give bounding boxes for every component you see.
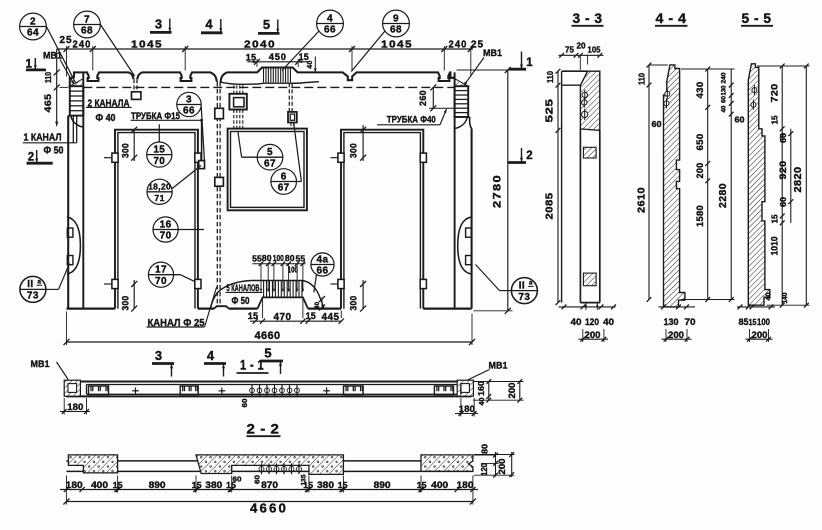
svg-text:465: 465 (43, 93, 54, 112)
svg-text:68: 68 (81, 26, 93, 37)
svg-text:4: 4 (207, 348, 215, 363)
svg-text:2: 2 (30, 16, 36, 27)
svg-text:135: 135 (300, 474, 307, 485)
svg-text:60: 60 (652, 119, 662, 129)
svg-text:2780: 2780 (491, 174, 503, 208)
svg-text:3 - 3: 3 - 3 (573, 11, 603, 26)
svg-text:1045: 1045 (131, 40, 163, 51)
svg-text:20: 20 (577, 41, 586, 51)
svg-text:МВ1: МВ1 (489, 360, 508, 371)
svg-text:68: 68 (390, 25, 402, 36)
svg-text:200: 200 (752, 330, 768, 341)
svg-text:1010: 1010 (769, 237, 779, 256)
svg-text:70: 70 (155, 276, 167, 287)
svg-text:85: 85 (739, 316, 749, 327)
svg-text:5: 5 (267, 147, 273, 158)
svg-text:60: 60 (240, 399, 249, 408)
svg-text:18,20: 18,20 (148, 182, 171, 192)
svg-text:70: 70 (160, 231, 172, 242)
svg-text:100: 100 (273, 253, 284, 263)
svg-text:200: 200 (694, 163, 705, 179)
svg-text:25: 25 (471, 40, 484, 51)
svg-text:15: 15 (153, 144, 165, 155)
svg-text:40: 40 (571, 317, 582, 328)
svg-text:180: 180 (67, 401, 83, 412)
svg-text:2280: 2280 (718, 183, 729, 208)
svg-text:40: 40 (766, 292, 773, 300)
svg-text:Ф 50: Ф 50 (44, 146, 64, 157)
svg-text:15: 15 (192, 480, 202, 490)
svg-text:2820: 2820 (793, 166, 804, 192)
svg-text:40: 40 (477, 398, 486, 406)
svg-text:200: 200 (497, 459, 507, 475)
svg-text:7: 7 (84, 14, 90, 25)
svg-text:100: 100 (757, 316, 770, 327)
svg-text:66: 66 (324, 25, 336, 36)
svg-text:180: 180 (66, 479, 83, 490)
svg-text:470: 470 (274, 312, 292, 323)
svg-text:71: 71 (154, 193, 164, 203)
svg-text:64: 64 (27, 28, 39, 39)
svg-text:II: II (27, 279, 33, 290)
svg-text:3: 3 (155, 17, 162, 32)
svg-text:300: 300 (349, 296, 359, 311)
svg-text:380: 380 (205, 479, 222, 490)
svg-text:40: 40 (314, 302, 321, 310)
svg-text:1580: 1580 (694, 205, 705, 227)
svg-text:80: 80 (262, 253, 272, 263)
svg-text:9: 9 (393, 13, 399, 24)
svg-text:15: 15 (417, 480, 427, 490)
svg-text:720: 720 (768, 84, 779, 103)
svg-text:70: 70 (685, 317, 696, 328)
svg-text:105: 105 (588, 45, 601, 55)
svg-text:400: 400 (431, 479, 448, 490)
svg-text:3: 3 (186, 94, 192, 105)
svg-text:130: 130 (721, 85, 728, 95)
svg-text:920: 920 (777, 161, 788, 180)
svg-text:15: 15 (248, 311, 258, 321)
svg-text:80: 80 (479, 444, 489, 454)
svg-text:2 - 2: 2 - 2 (247, 422, 280, 437)
svg-text:445: 445 (322, 312, 340, 323)
svg-text:1 КАНАЛ: 1 КАНАЛ (24, 132, 62, 143)
svg-text:400: 400 (91, 479, 108, 490)
svg-text:15: 15 (338, 480, 348, 490)
svg-text:300: 300 (121, 296, 131, 311)
svg-text:40: 40 (603, 317, 614, 328)
svg-text:5 КАНАЛОВ: 5 КАНАЛОВ (227, 282, 260, 293)
svg-text:1045: 1045 (381, 40, 413, 51)
svg-text:II: II (519, 280, 525, 291)
svg-text:60: 60 (779, 132, 788, 143)
svg-text:4660: 4660 (250, 502, 288, 516)
svg-text:4 - 4: 4 - 4 (656, 11, 687, 26)
svg-text:3: 3 (155, 348, 162, 363)
svg-text:15: 15 (246, 52, 257, 62)
svg-text:66: 66 (317, 266, 329, 277)
svg-text:5: 5 (263, 17, 270, 32)
svg-text:890: 890 (374, 479, 391, 490)
svg-text:80: 80 (285, 253, 295, 263)
svg-text:15: 15 (306, 311, 316, 321)
svg-text:380: 380 (317, 479, 334, 490)
svg-text:ТРУБКА Ф40: ТРУБКА Ф40 (387, 113, 436, 124)
svg-text:870: 870 (261, 479, 278, 490)
svg-text:67: 67 (278, 183, 290, 194)
svg-text:Ф 50: Ф 50 (232, 296, 250, 307)
svg-text:100: 100 (288, 265, 298, 275)
svg-text:430: 430 (694, 82, 705, 99)
svg-text:60: 60 (735, 115, 745, 125)
svg-text:73: 73 (27, 291, 39, 302)
svg-text:а: а (529, 280, 533, 287)
svg-text:300: 300 (349, 143, 359, 158)
svg-text:110: 110 (546, 70, 555, 83)
svg-text:40: 40 (307, 60, 314, 68)
svg-text:МВ1: МВ1 (31, 358, 50, 369)
svg-text:4660: 4660 (255, 330, 281, 342)
svg-text:МВ1: МВ1 (483, 47, 502, 58)
svg-text:17: 17 (155, 265, 167, 276)
svg-text:15: 15 (770, 214, 779, 224)
svg-text:2: 2 (526, 150, 532, 162)
svg-text:260: 260 (417, 90, 428, 106)
svg-text:60: 60 (253, 475, 262, 484)
svg-text:75: 75 (565, 45, 574, 55)
svg-text:5 - 5: 5 - 5 (742, 11, 772, 26)
svg-text:650: 650 (694, 134, 705, 151)
svg-text:130: 130 (664, 317, 679, 328)
svg-text:240: 240 (449, 40, 468, 51)
svg-text:60: 60 (779, 196, 788, 207)
svg-text:а: а (37, 278, 41, 285)
svg-text:15: 15 (749, 317, 757, 327)
svg-text:25: 25 (59, 35, 72, 46)
svg-text:60: 60 (721, 96, 728, 103)
svg-text:1 - 1: 1 - 1 (240, 358, 264, 373)
svg-text:890: 890 (149, 479, 166, 490)
svg-text:Ф 40: Ф 40 (96, 113, 116, 124)
svg-text:300: 300 (121, 143, 131, 158)
svg-text:240: 240 (73, 40, 92, 51)
svg-text:73: 73 (518, 292, 530, 303)
svg-text:2040: 2040 (244, 40, 276, 51)
svg-text:15: 15 (770, 115, 779, 125)
svg-text:120: 120 (585, 317, 599, 328)
svg-text:4: 4 (327, 13, 333, 24)
svg-text:4а: 4а (317, 254, 329, 265)
svg-text:110: 110 (44, 72, 53, 83)
svg-text:110: 110 (637, 72, 646, 85)
svg-text:16: 16 (160, 219, 172, 230)
svg-text:55: 55 (296, 253, 306, 263)
svg-text:120: 120 (479, 463, 489, 476)
svg-text:2: 2 (28, 152, 34, 164)
svg-text:240: 240 (721, 72, 728, 83)
svg-text:55: 55 (252, 253, 262, 263)
svg-text:5: 5 (264, 346, 271, 361)
svg-text:160: 160 (476, 381, 486, 396)
svg-text:66: 66 (183, 106, 195, 117)
svg-text:6: 6 (281, 171, 287, 182)
svg-text:4: 4 (205, 17, 213, 32)
svg-text:60: 60 (233, 475, 242, 484)
svg-text:140: 140 (782, 292, 789, 303)
svg-text:2610: 2610 (636, 187, 647, 213)
svg-text:ТРУБКА Ф15: ТРУБКА Ф15 (131, 110, 180, 121)
svg-text:200: 200 (668, 330, 684, 341)
svg-text:200: 200 (585, 330, 601, 341)
svg-text:2085: 2085 (545, 192, 556, 219)
svg-text:200: 200 (507, 383, 517, 399)
svg-text:180: 180 (457, 479, 474, 490)
svg-text:450: 450 (269, 52, 287, 63)
svg-text:525: 525 (545, 98, 556, 122)
svg-text:70: 70 (153, 156, 165, 167)
svg-text:67: 67 (264, 158, 276, 169)
svg-text:1: 1 (526, 57, 533, 69)
svg-text:40: 40 (721, 105, 728, 112)
